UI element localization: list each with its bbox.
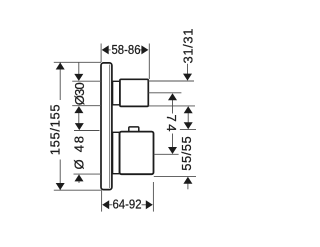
arrow right: 64-92	[146, 200, 153, 209]
ext line: bottom handle top, left (O48)	[74, 130, 100, 132]
top handle (thermostat knob)	[120, 79, 148, 106]
ext line: 58-86 right vertical	[148, 44, 150, 80]
stem of double arrow 31/31 to 55/55	[187, 113, 189, 123]
arrow up: O30 bottom (below line)	[74, 106, 83, 113]
plate front face line	[109, 65, 111, 189]
ext line: top handle bottom, left (O30)	[72, 105, 101, 107]
ext line: 64-92 right vertical	[152, 182, 154, 212]
leader stem O30 top	[78, 62, 80, 75]
bottom handle grip tab	[129, 127, 139, 132]
arrow down: 31/31 (above top line)	[183, 74, 192, 81]
ext line: top handle axis, right (74)	[148, 92, 181, 94]
svg-text:Ø 48: Ø 48	[71, 136, 86, 170]
arrow up: lower 31/31 (below handle-bottom line)	[184, 106, 193, 113]
ext line: plate top (155/155)	[54, 61, 101, 63]
arrow down: upper 55/55 (above upper line)	[184, 122, 193, 129]
ext line: bottom handle bottom, left (O48)	[74, 173, 102, 175]
dim line 155/155 upper segment	[59, 62, 61, 100]
arrow down: 74 bottom	[168, 147, 177, 154]
dim line 58-86 right segment	[140, 49, 142, 51]
arrow down: O48 top (above line)	[75, 123, 84, 130]
leader stem 31/31	[187, 64, 189, 75]
dim line 64-92 right segment	[142, 204, 147, 206]
dim line 74 upper stem	[172, 99, 174, 113]
arrow up: 74 top	[168, 93, 177, 100]
arrow right: 58-86	[141, 45, 148, 54]
svg-text:74: 74	[164, 115, 179, 132]
ext line: top handle top, left (O30)	[72, 80, 101, 82]
dim line 155/155 lower segment	[59, 160, 61, 191]
dim line 74 lower stem	[172, 134, 174, 149]
arrow up: O48 bottom (below line)	[75, 174, 84, 181]
svg-text:55/55: 55/55	[179, 136, 194, 171]
ext line: 55/55 lower	[154, 175, 196, 177]
ext line: plate bottom (155/155)	[54, 189, 102, 191]
ext line: bottom handle axis, right (74)	[154, 153, 179, 155]
arrow up: 155/155 top	[56, 63, 65, 70]
ext line: top handle top, right (31/31)	[148, 80, 194, 82]
top handle neck	[113, 81, 120, 105]
svg-text:64-92: 64-92	[113, 196, 142, 211]
svg-text:Ø30: Ø30	[72, 82, 87, 105]
arrow left: 64-92	[102, 200, 109, 209]
ext line: top handle bottom, right (31/31 to 55/55)	[148, 105, 195, 107]
svg-text:155/155: 155/155	[48, 104, 63, 155]
svg-text:31/31: 31/31	[180, 29, 195, 64]
leader stem O48 bottom	[78, 181, 80, 184]
dim line 64-92 left segment	[109, 204, 113, 206]
arrow up: 55/55 bottom (below lower line)	[183, 177, 192, 184]
arrow down: 155/155 bottom	[56, 183, 65, 190]
arrow left: 58-86	[102, 45, 109, 54]
wall plate (escutcheon, side view)	[101, 63, 112, 190]
bottom handle (shut-off knob)	[120, 132, 154, 175]
svg-text:58-86: 58-86	[112, 42, 141, 57]
leader stem O30/O48 middle	[78, 113, 80, 124]
ext line: 64-92 left vertical	[101, 190, 103, 211]
ext line: 55/55 upper	[180, 129, 196, 131]
ext line: 58-86 left vertical	[100, 44, 102, 63]
leader stem 55/55 bottom	[187, 183, 189, 189]
dim line 58-86 left segment	[108, 49, 110, 51]
bottom handle neck	[113, 132, 120, 173]
arrow down: O30 top	[74, 74, 83, 81]
